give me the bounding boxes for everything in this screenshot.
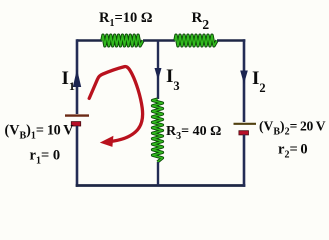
- label I2: [252, 68, 266, 95]
- wire middle upper (with I3 arrow shaft): [157, 41, 159, 100]
- wire right lower: [243, 135, 246, 187]
- battery B1 long plate: [65, 114, 89, 116]
- label r1 = 0: [30, 148, 61, 167]
- resistor R2: [175, 35, 217, 46]
- wire top-left segment: [77, 39, 102, 42]
- label R2: [192, 10, 210, 32]
- wire top-right segment: [217, 39, 245, 42]
- wire left lower: [76, 126, 79, 187]
- label R1=10 ohm: [99, 10, 152, 29]
- wire left upper (with I1 arrow shaft): [76, 39, 79, 114]
- label I3: [166, 66, 180, 93]
- current arrow I1: [73, 69, 81, 87]
- current arrow I3: [155, 68, 162, 80]
- battery B2 long plate: [234, 123, 257, 125]
- loop direction arrow (red, clockwise): [89, 67, 142, 147]
- resistor R1: [102, 35, 143, 46]
- resistor R3: [153, 99, 163, 162]
- current arrow I2: [240, 71, 248, 85]
- battery B1 short plate: [71, 122, 80, 126]
- battery B2 short plate: [239, 131, 249, 135]
- label I1: [62, 68, 75, 93]
- wire right upper (with I2 arrow shaft): [243, 39, 246, 122]
- wire bottom: [76, 184, 246, 187]
- label R3 = 40 ohm: [166, 124, 221, 142]
- wire middle lower: [157, 162, 159, 186]
- wire top-middle segment: [143, 39, 175, 42]
- label (VB)2 = 20 V: [259, 119, 326, 138]
- label (VB)1 = 10 V: [5, 123, 75, 142]
- label r2 = 0: [278, 142, 307, 161]
